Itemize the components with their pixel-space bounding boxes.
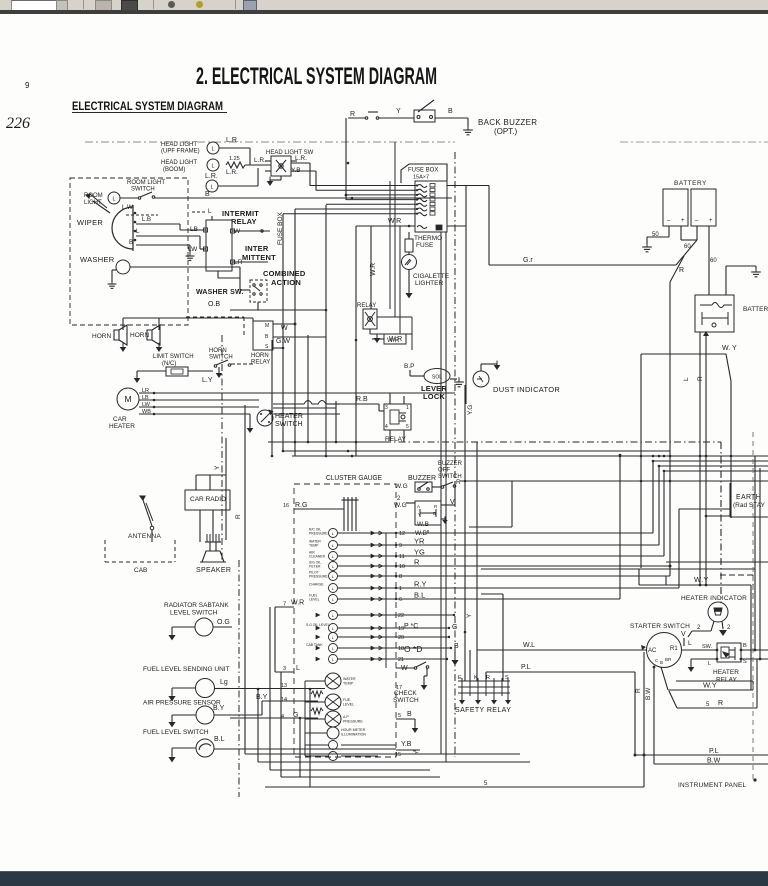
svg-text:LEVEL SWITCH: LEVEL SWITCH	[170, 610, 218, 617]
svg-text:B.L: B.L	[414, 591, 425, 600]
svg-text:L: L	[211, 164, 214, 170]
svg-text:P *C: P *C	[404, 623, 418, 630]
svg-text:SWITCH: SWITCH	[131, 187, 155, 193]
svg-text:L: L	[332, 646, 335, 651]
svg-text:SWITCH: SWITCH	[275, 421, 303, 428]
svg-text:L: L	[708, 661, 711, 667]
svg-text:BUZZER: BUZZER	[438, 461, 463, 467]
svg-text:P.L: P.L	[709, 748, 719, 755]
svg-text:PRESSURE: PRESSURE	[309, 532, 328, 536]
svg-text:2: 2	[727, 625, 731, 631]
svg-text:9: 9	[399, 543, 402, 549]
svg-text:+: +	[709, 218, 713, 224]
svg-text:E: E	[458, 675, 462, 681]
svg-text:L.R.: L.R.	[205, 173, 218, 180]
svg-text:L: L	[332, 543, 335, 548]
svg-text:W.B: W.B	[417, 521, 429, 528]
svg-text:STARTER SWITCH: STARTER SWITCH	[630, 623, 690, 630]
svg-text:W.G: W.G	[395, 483, 408, 490]
svg-text:M: M	[124, 394, 131, 404]
svg-text:R: R	[456, 479, 461, 486]
svg-text:R: R	[414, 558, 420, 567]
svg-text:LW: LW	[188, 246, 198, 253]
svg-text:*F: *F	[413, 750, 419, 756]
svg-text:L: L	[332, 613, 335, 618]
svg-text:AIR PRESSURE SENSOR: AIR PRESSURE SENSOR	[143, 700, 221, 707]
svg-text:ANTENNA: ANTENNA	[128, 533, 162, 540]
svg-text:+: +	[681, 218, 685, 224]
svg-text:RADIATOR SABTANK: RADIATOR SABTANK	[164, 602, 229, 609]
svg-text:RELAY: RELAY	[357, 303, 376, 309]
svg-text:L.W: L.W	[122, 205, 133, 211]
svg-text:RELAY: RELAY	[251, 360, 270, 366]
svg-text:C: C	[655, 658, 659, 663]
svg-text:226: 226	[6, 115, 30, 132]
svg-text:W.Y: W.Y	[694, 575, 709, 584]
svg-text:CAR: CAR	[113, 416, 127, 423]
svg-text:FILTER: FILTER	[309, 565, 321, 569]
svg-text:G: G	[452, 624, 457, 631]
svg-text:PRESSURE: PRESSURE	[309, 575, 328, 579]
svg-text:P.L: P.L	[521, 664, 531, 671]
svg-text:B: B	[454, 643, 459, 650]
svg-text:HORN: HORN	[209, 348, 227, 354]
svg-text:B: B	[448, 108, 453, 115]
svg-text:L: L	[210, 185, 213, 191]
svg-text:SWITCH: SWITCH	[393, 697, 419, 704]
svg-text:8: 8	[399, 574, 402, 580]
svg-text:CHARGE: CHARGE	[309, 583, 324, 587]
svg-text:20: 20	[398, 635, 404, 641]
svg-text:L: L	[332, 531, 335, 536]
svg-text:HEATER INDICATOR: HEATER INDICATOR	[681, 595, 747, 602]
svg-text:L: L	[332, 586, 335, 591]
svg-text:FUSE: FUSE	[416, 242, 434, 249]
svg-text:ELECTRICAL SYSTEM DIAGRAM: ELECTRICAL SYSTEM DIAGRAM	[72, 99, 223, 113]
svg-text:FUEL LEVEL SWITCH: FUEL LEVEL SWITCH	[143, 729, 209, 736]
svg-text:R: R	[350, 111, 355, 118]
svg-text:BATTERY: BATTERY	[743, 306, 768, 313]
svg-text:HORN: HORN	[251, 353, 269, 359]
svg-text:L.R.: L.R.	[254, 157, 266, 164]
svg-text:HEATER: HEATER	[109, 423, 135, 430]
svg-text:L: L	[332, 657, 335, 662]
svg-text:–: –	[695, 218, 699, 224]
svg-text:B.L: B.L	[214, 736, 225, 743]
svg-text:HEATER: HEATER	[713, 669, 739, 676]
svg-text:11: 11	[399, 554, 405, 560]
svg-text:ILLUMINATION: ILLUMINATION	[341, 733, 366, 737]
svg-text:B: B	[129, 240, 133, 246]
svg-text:–: –	[667, 218, 671, 224]
svg-text:B.W: B.W	[645, 687, 652, 700]
svg-text:L: L	[688, 640, 692, 647]
svg-text:CLUSTER GAUGE: CLUSTER GAUGE	[326, 475, 382, 482]
svg-text:G.r: G.r	[523, 257, 533, 264]
svg-text:16: 16	[283, 503, 289, 509]
svg-text:B.W: B.W	[707, 758, 721, 765]
svg-text:BACK BUZZER: BACK BUZZER	[478, 118, 537, 127]
svg-text:(BOOM): (BOOM)	[163, 167, 185, 173]
svg-text:5: 5	[398, 713, 401, 719]
svg-text:Y.G: Y.G	[467, 405, 474, 415]
svg-text:S: S	[743, 659, 747, 665]
svg-text:L: L	[332, 597, 335, 602]
svg-text:R: R	[697, 376, 704, 381]
svg-text:O *D: O *D	[404, 644, 422, 654]
svg-text:R: R	[235, 514, 242, 519]
svg-text:O.G: O.G	[217, 619, 230, 626]
svg-text:THERMO: THERMO	[414, 235, 442, 242]
svg-text:CIGALETTE: CIGALETTE	[413, 273, 450, 280]
svg-text:22: 22	[398, 613, 404, 619]
svg-text:SPEAKER: SPEAKER	[196, 567, 231, 574]
svg-text:HEAD LIGHT: HEAD LIGHT	[161, 160, 197, 166]
svg-text:FUE.: FUE.	[343, 698, 351, 702]
svg-text:R: R	[718, 700, 723, 707]
svg-text:FUEL LEVEL SENDING UNIT: FUEL LEVEL SENDING UNIT	[143, 666, 230, 673]
svg-text:FUSE BOX: FUSE BOX	[408, 168, 438, 174]
svg-text:Y: Y	[396, 108, 401, 115]
svg-text:O.B: O.B	[208, 301, 220, 308]
svg-text:3: 3	[385, 405, 388, 411]
svg-text:2: 2	[697, 625, 701, 631]
svg-text:W: W	[281, 325, 288, 332]
svg-text:LIGHTER: LIGHTER	[415, 280, 443, 287]
svg-text:4: 4	[385, 424, 388, 430]
svg-text:3: 3	[283, 666, 286, 672]
svg-text:RELAY: RELAY	[231, 217, 257, 226]
svg-text:14: 14	[281, 697, 287, 703]
svg-text:WATER: WATER	[343, 677, 356, 681]
svg-text:HORN: HORN	[92, 333, 111, 340]
svg-text:Y.B: Y.B	[401, 741, 412, 748]
svg-text:R1: R1	[670, 646, 678, 652]
svg-text:V: V	[681, 631, 686, 638]
svg-text:M: M	[265, 323, 269, 329]
svg-text:L.R.: L.R.	[226, 169, 238, 176]
svg-text:L: L	[332, 574, 335, 579]
svg-text:HOUR METER: HOUR METER	[341, 728, 366, 732]
svg-text:R: R	[486, 675, 490, 681]
svg-text:LEVEL: LEVEL	[343, 703, 354, 707]
svg-text:CAB: CAB	[134, 567, 147, 574]
svg-text:BUZZER: BUZZER	[408, 475, 436, 482]
svg-text:60: 60	[710, 258, 717, 264]
svg-text:10: 10	[399, 564, 405, 570]
svg-text:SAFETY RELAY: SAFETY RELAY	[455, 707, 511, 714]
svg-text:L: L	[332, 564, 335, 569]
svg-text:ROOM LIGHT: ROOM LIGHT	[127, 180, 165, 186]
svg-text:1.25: 1.25	[229, 156, 240, 162]
svg-text:W.Y: W.Y	[703, 681, 717, 690]
svg-text:L: L	[211, 147, 214, 153]
svg-text:RELAY: RELAY	[716, 677, 737, 684]
svg-text:W.R: W.R	[387, 337, 400, 344]
svg-text:Y: Y	[214, 465, 221, 470]
svg-text:W. Y: W. Y	[722, 345, 737, 352]
svg-text:B: B	[407, 711, 412, 718]
svg-text:WASHER SW.: WASHER SW.	[196, 289, 244, 296]
svg-text:(OPT.): (OPT.)	[494, 127, 517, 136]
svg-text:CHECK: CHECK	[394, 690, 417, 697]
svg-text:L.R.: L.R.	[226, 137, 239, 144]
svg-text:DUST INDICATOR: DUST INDICATOR	[493, 385, 560, 394]
svg-text:YG: YG	[414, 548, 425, 557]
svg-text:EARTH: EARTH	[736, 494, 761, 501]
svg-text:SOL: SOL	[432, 375, 442, 381]
svg-text:TEMP: TEMP	[309, 544, 319, 548]
svg-text:15A×7: 15A×7	[413, 175, 429, 181]
svg-text:OFF: OFF	[438, 468, 450, 474]
svg-text:9: 9	[25, 81, 30, 90]
svg-text:WASHER: WASHER	[80, 255, 115, 264]
svg-text:5: 5	[706, 702, 710, 708]
svg-text:BATTERY: BATTERY	[674, 180, 707, 187]
svg-text:CAR RADIO: CAR RADIO	[190, 496, 226, 503]
svg-text:R.B: R.B	[356, 396, 368, 403]
svg-text:L: L	[332, 626, 335, 631]
svg-text:B: B	[265, 334, 269, 340]
svg-text:W.R: W.R	[291, 600, 304, 607]
svg-text:SW.: SW.	[702, 644, 713, 650]
svg-text:(N/C): (N/C)	[162, 361, 176, 367]
svg-text:Lg: Lg	[220, 679, 228, 686]
svg-text:COMBINED: COMBINED	[263, 269, 306, 278]
svg-text:CAB TANK: CAB TANK	[306, 643, 323, 647]
svg-text:INTER: INTER	[245, 244, 269, 253]
svg-text:CLEANER: CLEANER	[309, 555, 326, 559]
svg-text:12: 12	[399, 531, 405, 537]
svg-text:AC: AC	[648, 648, 657, 654]
svg-text:60: 60	[684, 244, 691, 250]
svg-text:S.G OIL LEVEL: S.G OIL LEVEL	[306, 623, 330, 627]
svg-text:1: 1	[406, 405, 409, 411]
svg-text:R.Y: R.Y	[414, 580, 427, 589]
svg-text:15: 15	[395, 752, 401, 758]
svg-text:LIMIT SWITCH: LIMIT SWITCH	[153, 354, 194, 360]
svg-text:LB: LB	[190, 226, 198, 233]
svg-text:1: 1	[399, 586, 402, 592]
svg-text:R: R	[679, 267, 684, 274]
svg-text:Y: Y	[466, 613, 473, 618]
svg-text:A: A	[417, 504, 420, 509]
svg-text:L: L	[112, 197, 115, 203]
svg-text:5: 5	[484, 781, 488, 787]
svg-text:INSTRUMENT PANEL: INSTRUMENT PANEL	[678, 782, 747, 789]
svg-text:S: S	[265, 344, 269, 350]
svg-text:50: 50	[652, 232, 659, 238]
svg-text:R: R	[635, 688, 642, 693]
svg-text:B.Y: B.Y	[213, 705, 225, 712]
svg-text:TEMP: TEMP	[343, 682, 354, 686]
svg-text:K: K	[474, 675, 478, 681]
svg-text:R: R	[434, 504, 438, 509]
svg-text:B.P: B.P	[404, 363, 414, 370]
svg-text:L: L	[136, 229, 140, 235]
svg-text:PRESSURE: PRESSURE	[343, 720, 363, 724]
svg-text:RELAY: RELAY	[385, 436, 406, 443]
svg-text:L: L	[683, 377, 690, 381]
svg-text:WIPER: WIPER	[77, 218, 103, 227]
svg-text:7: 7	[283, 602, 286, 608]
svg-text:L.R.: L.R.	[295, 155, 307, 162]
svg-text:L: L	[208, 209, 212, 215]
svg-text:L: L	[296, 665, 300, 672]
svg-text:SWITCH: SWITCH	[209, 355, 233, 361]
svg-text:ACTION: ACTION	[271, 278, 301, 287]
svg-text:21: 21	[398, 657, 404, 663]
svg-text:HEAD LIGHT: HEAD LIGHT	[161, 142, 197, 148]
svg-text:L: L	[332, 554, 335, 559]
svg-text:B: B	[743, 643, 747, 649]
svg-text:A.P: A.P	[343, 715, 349, 719]
svg-text:MITTENT: MITTENT	[242, 253, 276, 262]
svg-text:YR: YR	[414, 537, 425, 546]
svg-text:L.Y: L.Y	[202, 377, 213, 384]
svg-text:BR: BR	[665, 657, 672, 662]
svg-text:(UPF FRAME): (UPF FRAME)	[161, 149, 200, 155]
svg-text:2. ELECTRICAL SYSTEM DIAGRAM: 2. ELECTRICAL SYSTEM DIAGRAM	[196, 63, 437, 90]
svg-text:6: 6	[399, 597, 402, 603]
svg-text:R.G: R.G	[295, 502, 307, 509]
svg-text:B: B	[660, 660, 663, 665]
svg-text:(Rad STAY: (Rad STAY	[733, 502, 766, 509]
svg-text:LOCK: LOCK	[423, 392, 445, 401]
svg-text:L.B: L.B	[142, 217, 151, 223]
svg-text:W.L: W.L	[523, 642, 535, 649]
svg-text:5: 5	[406, 424, 409, 430]
svg-text:L: L	[332, 635, 335, 640]
svg-text:LEVEL: LEVEL	[309, 598, 320, 602]
svg-text:B: B	[205, 191, 210, 198]
